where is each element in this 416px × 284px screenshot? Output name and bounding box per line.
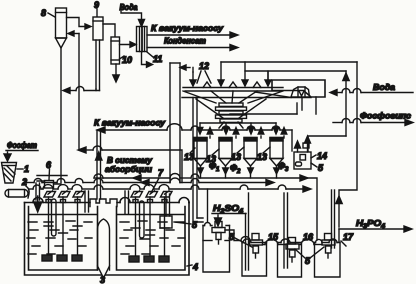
receiver 13 no.1	[194, 138, 207, 179]
filter deck line	[182, 97, 311, 99]
wire 10 bottom outlet arrow	[115, 64, 117, 76]
svg-text:15: 15	[268, 232, 279, 242]
svg-text:12: 12	[199, 61, 209, 71]
label 5 (T3/T4)	[295, 247, 324, 266]
label 5 T2	[229, 232, 252, 247]
conveyor 2	[5, 190, 28, 198]
wire condensate line	[147, 47, 231, 49]
vessel 8	[56, 8, 67, 48]
filter 12 funnel	[183, 91, 283, 103]
wire 10 to 11	[120, 44, 135, 46]
label H2SO4	[212, 203, 246, 215]
label 5 (box14)	[311, 163, 324, 173]
agitator shafts and paddles left	[42, 197, 82, 261]
label 9	[94, 0, 99, 16]
label 5 (reactor pump)	[174, 220, 198, 230]
svg-text:3: 3	[100, 275, 105, 284]
label Фосфат	[6, 140, 38, 151]
wire gypsum chute line	[230, 103, 297, 114]
draft tube left	[52, 199, 57, 236]
svg-text:абсорбции: абсорбции	[105, 164, 153, 174]
wire vertical x79	[78, 34, 80, 151]
wire 9 to 10	[103, 24, 115, 36]
wire pump T2 to T3	[263, 244, 266, 246]
draft tube right	[140, 201, 145, 238]
wire right vertical x357 to H3PO4	[339, 62, 357, 227]
machine gypsum discharge blade	[255, 80, 325, 98]
wire wash water drops into filter	[190, 62, 271, 86]
reactor 3 outer shell	[25, 198, 190, 276]
label 6	[46, 160, 52, 180]
wire water to 11	[121, 12, 142, 24]
reactor central arch	[98, 219, 110, 270]
condenser 11	[137, 27, 148, 52]
wire line C y71	[193, 62, 346, 81]
wire phosphate arrow	[4, 152, 11, 161]
svg-text:11: 11	[153, 54, 162, 64]
svg-text:14: 14	[317, 151, 327, 161]
machine legs	[302, 97, 316, 114]
wire line A y62	[221, 61, 357, 63]
filtrate collect line L1 y178	[94, 174, 317, 241]
svg-text:К вакуум-насосу: К вакуум-насосу	[151, 23, 224, 33]
label 13 no.3	[231, 147, 244, 162]
reactor pump box right chamber	[160, 194, 172, 228]
wire water line right	[330, 89, 413, 96]
collect line L3 y189	[29, 185, 311, 192]
wire gypsum line	[333, 119, 413, 126]
wire T2 riser	[243, 193, 251, 270]
pipe turret riser	[96, 130, 102, 199]
pump on T2	[250, 234, 263, 259]
svg-text:Конденсат: Конденсат	[164, 36, 206, 46]
wire vacuum line top	[147, 34, 231, 36]
reactor dip pipes	[85, 191, 129, 214]
wire absorption line y150	[78, 146, 182, 183]
agitator flags right chamber	[131, 191, 172, 197]
filter 12 legs	[219, 122, 243, 128]
label 13 no.2	[206, 149, 219, 164]
svg-text:Фосфогипс: Фосфогипс	[360, 111, 411, 121]
filter bottom distribution manifold	[200, 122, 276, 124]
wire vacuum line middle	[97, 124, 292, 151]
pipe barometric leg (wide vertical)	[170, 63, 180, 183]
receiver 13 no.3	[244, 138, 257, 179]
label 1	[17, 164, 29, 174]
wire acid arrow	[215, 215, 222, 226]
wire riser x346 (filtrate return)	[308, 71, 349, 151]
svg-text:8: 8	[41, 8, 46, 18]
wire product line	[339, 226, 412, 232]
wire pipe into T1	[207, 189, 209, 222]
svg-text:4: 4	[192, 262, 198, 272]
pump on T3	[286, 238, 299, 263]
label 10	[120, 55, 133, 65]
label 12	[197, 61, 211, 83]
label 2	[21, 177, 29, 198]
liquid level right chamber	[117, 215, 185, 255]
wire T4 riser	[316, 190, 338, 248]
label 8	[41, 8, 55, 18]
wire H3PO4 riser	[338, 229, 340, 242]
tank T2	[242, 243, 267, 277]
agitator shafts and paddles right	[129, 197, 169, 262]
reactor feed dip pipe	[34, 183, 42, 212]
wire 8 top to 9	[67, 18, 91, 27]
tank T1 acid	[203, 223, 230, 272]
wire condensate leg of 11	[142, 52, 149, 65]
receiver 13 no.2	[219, 138, 232, 179]
svg-text:Вода: Вода	[120, 2, 138, 12]
liquid level left chamber	[27, 215, 97, 255]
agitator flags left chamber	[44, 191, 85, 197]
vessel 9	[93, 17, 103, 40]
label 13 no.1	[184, 148, 195, 162]
machine gypsum cart	[291, 87, 310, 97]
wire pump T3 to T4	[299, 244, 301, 246]
receiver 13 no.4	[270, 138, 283, 179]
pump on T1	[212, 222, 225, 245]
filter 12 stem plates	[216, 103, 247, 122]
receiver feed drops with arrows	[197, 123, 279, 134]
box 6 feeder	[37, 176, 67, 189]
svg-text:17: 17	[343, 232, 354, 242]
box 14 pump unit	[294, 136, 311, 169]
pump on T4	[322, 234, 335, 259]
collect line L2 y182.5	[25, 178, 274, 186]
wire T3 riser	[281, 193, 290, 268]
label 4	[187, 262, 198, 272]
vessel 10	[111, 37, 120, 64]
label 14	[311, 151, 327, 161]
svg-text:К вакуум-насосу: К вакуум-насосу	[94, 118, 166, 128]
svg-text:Вода: Вода	[373, 82, 395, 92]
svg-text:13: 13	[257, 152, 267, 162]
tank T4	[315, 243, 341, 278]
label 13 no.4	[257, 147, 270, 162]
wire arrow into pipe top	[181, 67, 190, 69]
hopper 1	[2, 163, 17, 184]
label 7	[151, 168, 164, 193]
label В систему абсорбции	[105, 155, 153, 174]
receiver vent risers with up arrows	[207, 128, 287, 139]
wire 9 bottom down to reactor turret	[95, 40, 97, 89]
svg-text:13: 13	[231, 152, 241, 162]
filter 12 top band	[183, 82, 283, 91]
svg-text:Фосфат: Фосфат	[7, 140, 37, 150]
label 11	[147, 52, 162, 64]
tank T3	[278, 243, 302, 278]
svg-text:1: 1	[24, 164, 29, 174]
label 17	[341, 232, 354, 246]
wire pump T1 to T2	[225, 230, 241, 241]
wire vertical x245.5 acid line	[245, 214, 247, 243]
reactor bottom V notch	[98, 266, 110, 278]
reactor central turret	[90, 199, 117, 207]
wire return into 8	[69, 33, 79, 35]
wire vertical x61 from 8 cone	[60, 48, 62, 183]
filter support diagonals	[196, 99, 266, 118]
wire verticals x193 x197	[193, 98, 203, 223]
